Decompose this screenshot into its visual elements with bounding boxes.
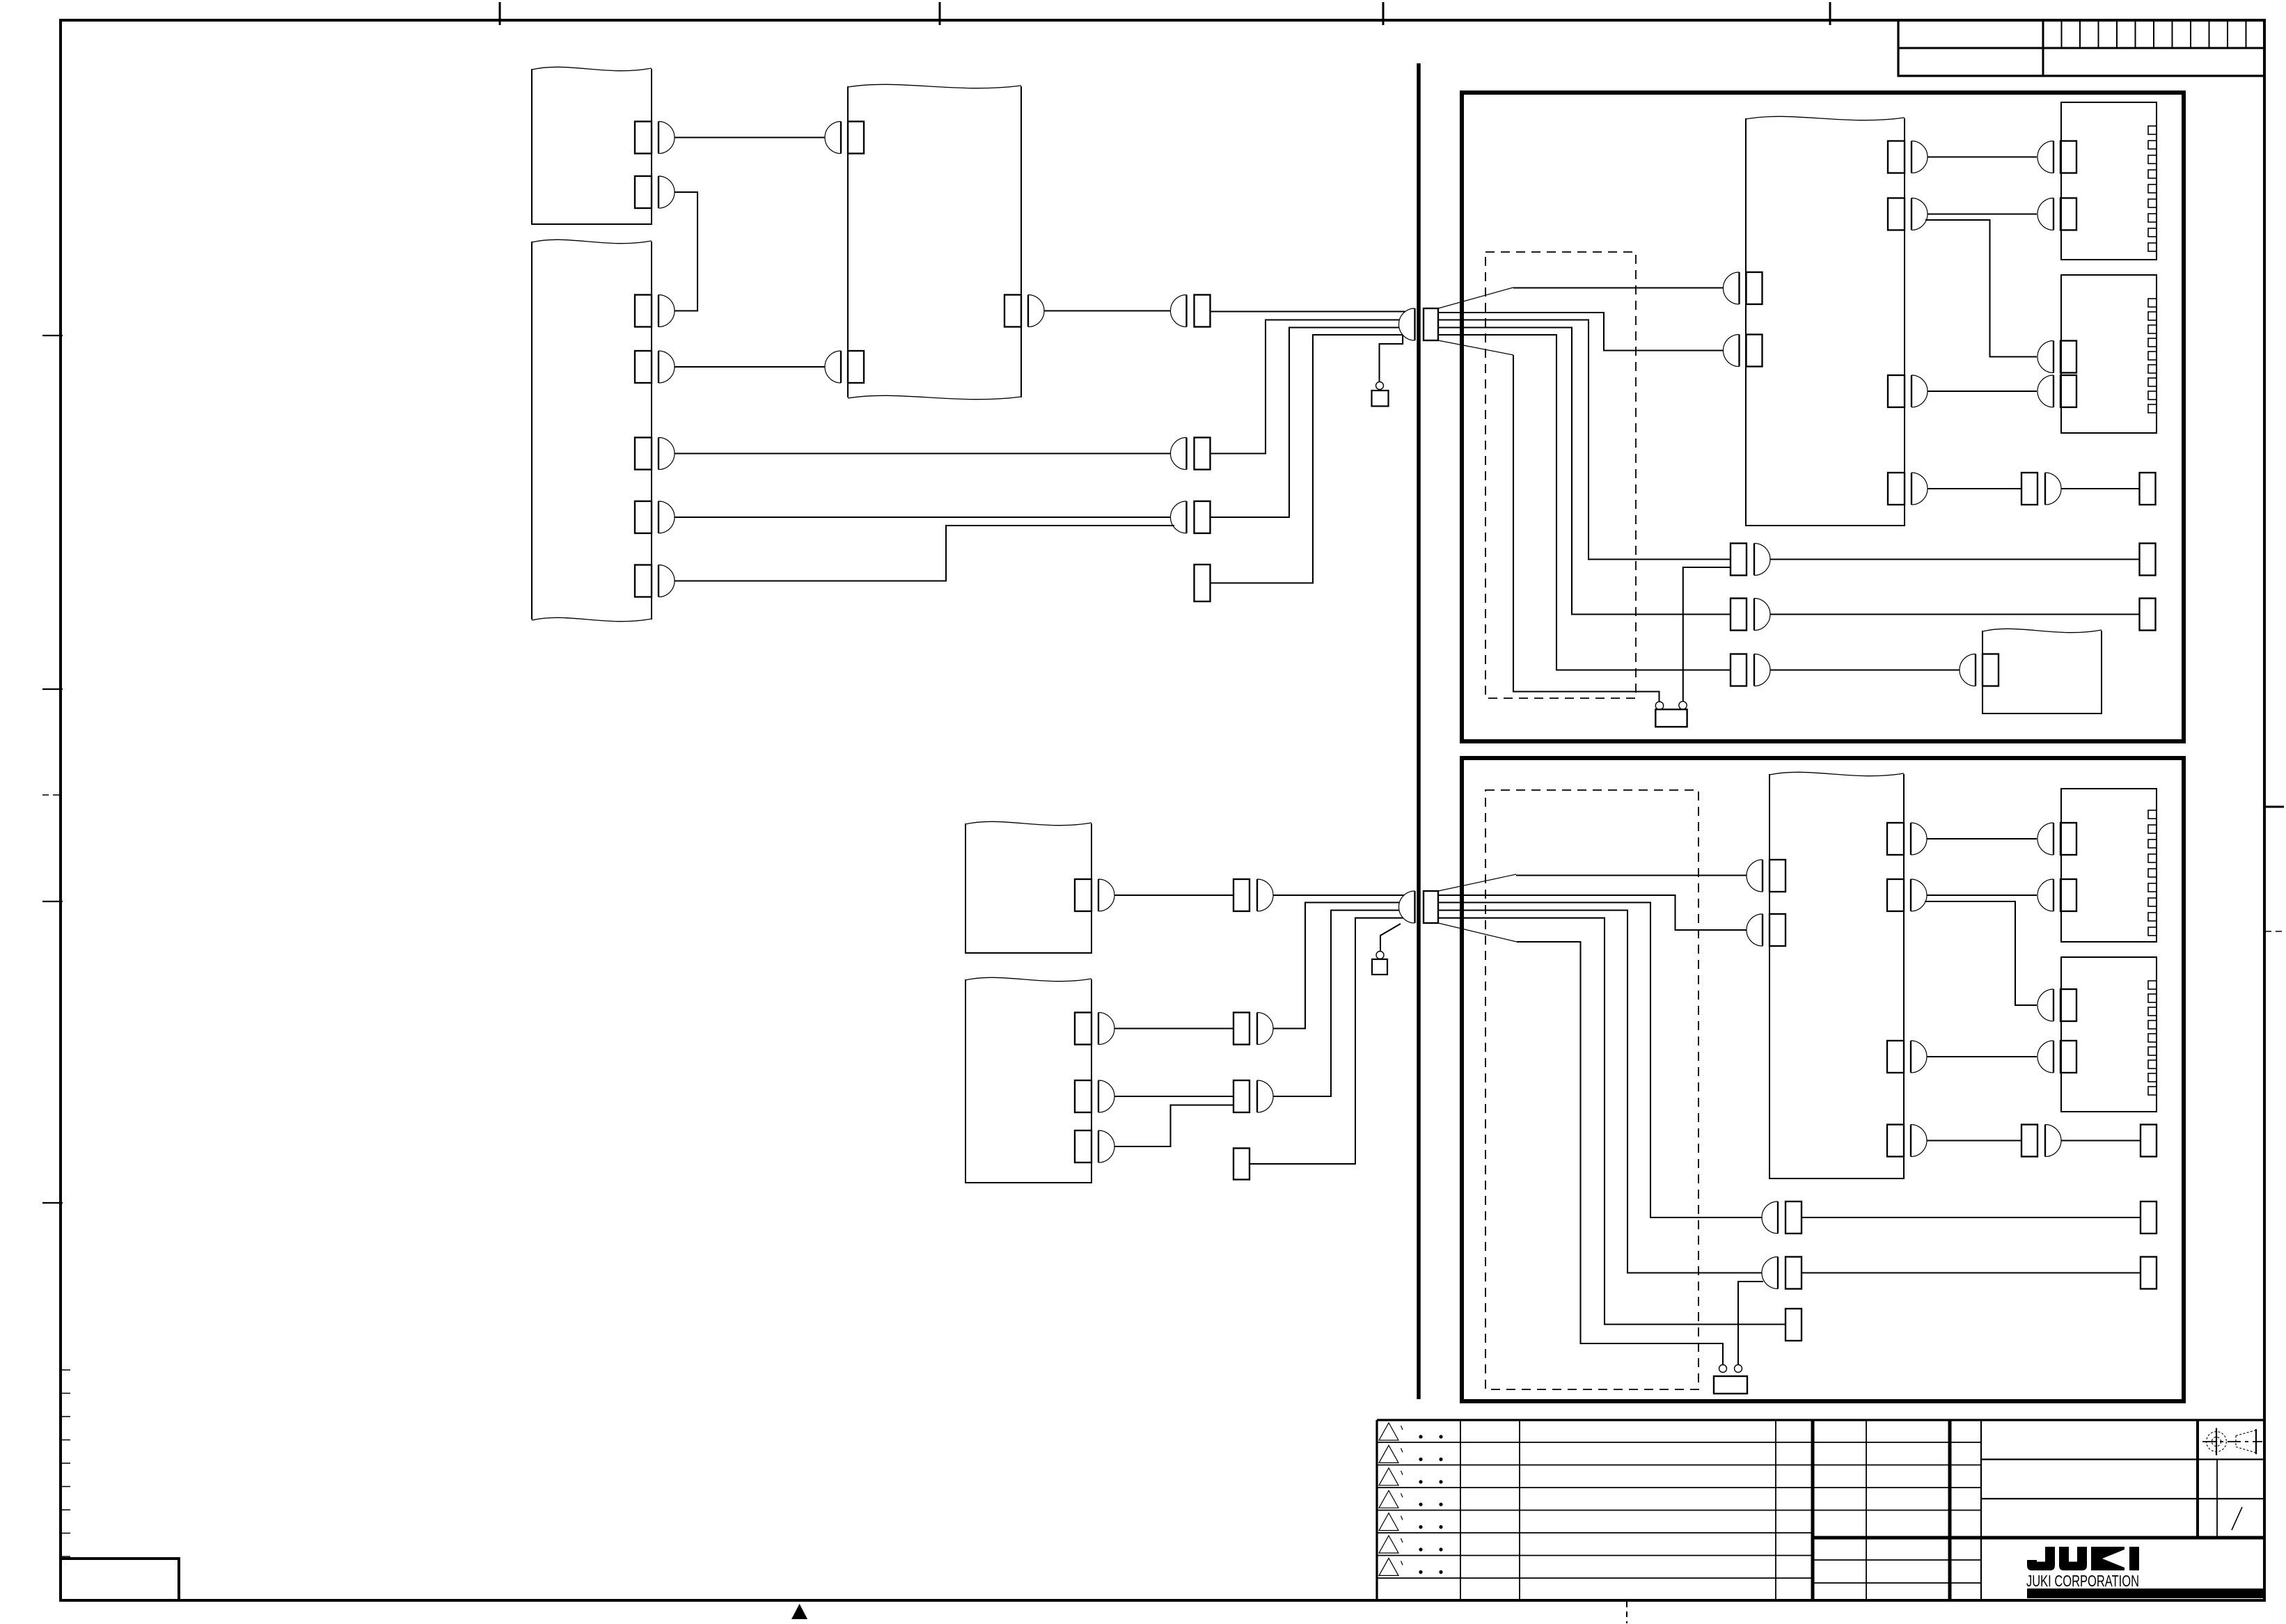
connector J2 (sub board 1) bbox=[2037, 198, 2076, 230]
left edge tick 4 bbox=[42, 1202, 63, 1204]
bottom left reference box bbox=[61, 1559, 179, 1600]
earth ring 2b bbox=[1735, 1365, 1742, 1373]
trunk connector socket hub 2 bbox=[1399, 891, 1415, 923]
wire pair6 to hub riser bbox=[1273, 903, 1399, 1029]
hub1 ground branch wire bbox=[1380, 335, 1403, 382]
trunk connector plug hub 2 bbox=[1424, 891, 1438, 923]
wire G1 to pair 5 bbox=[1114, 894, 1233, 896]
earth strap plate 2 bbox=[1714, 1376, 1747, 1394]
sub board 3 bbox=[2061, 789, 2157, 942]
left edge centre dash mark bbox=[42, 794, 62, 796]
wire B2 to C2 bbox=[675, 366, 825, 368]
block B (left, continued both ends) bbox=[531, 242, 533, 620]
wire P1 to terminal T2 bbox=[1770, 558, 2140, 560]
earth ring 1a bbox=[1655, 702, 1663, 709]
wire L6 to hub riser bbox=[1250, 918, 1403, 1164]
connector P1 pair bbox=[1731, 544, 1770, 576]
connector B2 (block B pin) bbox=[635, 351, 675, 383]
svg-text:JUKI CORPORATION: JUKI CORPORATION bbox=[2026, 1572, 2139, 1590]
hub1 ground ring bbox=[1376, 382, 1384, 390]
wire hub2-2 to P1b bbox=[1438, 903, 1762, 1218]
terminal plug L5 bbox=[1195, 565, 1211, 601]
left edge tick 2 bbox=[42, 688, 63, 690]
wire P2b to terminal T6 bbox=[1802, 1272, 2141, 1273]
inline connector pair 7 bbox=[1233, 1080, 1273, 1112]
hub1 ground lug bbox=[1372, 391, 1389, 407]
revision triangle marks bbox=[1379, 1423, 1443, 1575]
connector E2 (PCB1 left) bbox=[1724, 335, 1763, 367]
wire pair3 to hub bbox=[1211, 310, 1405, 312]
enclosure1 shield drain wire bbox=[1513, 355, 1660, 702]
block H (lower left, continued) bbox=[965, 979, 1091, 1183]
cable group dashed box 2 bbox=[1485, 790, 1698, 1389]
wire pair5 to hub 2 bbox=[1273, 894, 1404, 896]
hub1 cable outline lower bbox=[1438, 340, 1513, 355]
wire B5 joining pair 2 bbox=[675, 526, 1174, 581]
sub board 4 bbox=[2061, 957, 2157, 1112]
wire hub2-3 to P2b bbox=[1438, 910, 1762, 1273]
earth strap plate 1 bbox=[1655, 709, 1687, 727]
wire hub1-3 to P2 bbox=[1438, 328, 1731, 615]
sub board 1 bbox=[2061, 102, 2157, 260]
terminal plug T4 bbox=[2141, 1125, 2157, 1157]
connector B1 (block B pin) bbox=[635, 295, 675, 327]
hub2 cable outline upper bbox=[1438, 874, 1516, 891]
wire hub1-2 to P1 bbox=[1438, 320, 1731, 560]
sub board 2 bbox=[2061, 275, 2157, 433]
wire D2b to J6 bbox=[1927, 894, 2037, 896]
earth ring 1b bbox=[1679, 702, 1687, 709]
connector P2 pair bbox=[1731, 599, 1770, 631]
wire hub2-4 to terminal T7 bbox=[1438, 918, 1786, 1325]
hub1 cable outline upper bbox=[1438, 287, 1513, 308]
wire hub1-1 to E2 bbox=[1438, 313, 1724, 351]
connector B3 (block B pin) bbox=[635, 438, 675, 470]
wire hub1-4 to P3 bbox=[1438, 335, 1731, 670]
bottom fold mark dashed bbox=[1626, 1602, 1627, 1623]
connector C1 (block C pin) bbox=[825, 122, 864, 154]
hub2 ground ring bbox=[1376, 952, 1384, 959]
sub board 2 pin comb bbox=[2148, 299, 2157, 413]
connector J1 (sub board 1) bbox=[2037, 141, 2076, 173]
terminal plug T1 bbox=[2140, 473, 2156, 505]
JUKI logo bbox=[2027, 1547, 2139, 1570]
block A (upper left, continued) bbox=[532, 69, 652, 224]
connector D3b (PCB2 right) bbox=[1887, 1041, 1927, 1073]
wire C3 to inline pair 3 bbox=[1044, 310, 1171, 311]
terminal plug T6 bbox=[2141, 1257, 2157, 1289]
terminal plug T7 bbox=[1786, 1309, 1802, 1341]
connector J8 (sub board 4) bbox=[2037, 1041, 2076, 1073]
sub board 1 pin comb bbox=[2148, 126, 2157, 251]
main harness boundary line bbox=[1417, 63, 1421, 1399]
top right drawing number strip bbox=[1898, 20, 2264, 76]
left border scale ticks bbox=[62, 1370, 70, 1556]
unit enclosure box 1 bbox=[1462, 93, 2184, 741]
terminal plug T5 bbox=[2141, 1201, 2157, 1233]
wire P3 to K1 bbox=[1770, 669, 1960, 670]
hub2 ground branch wire bbox=[1380, 924, 1401, 952]
connector J6 (sub board 3) bbox=[2037, 879, 2076, 911]
wire D2 to J2 bbox=[1928, 213, 2037, 214]
left edge tick 1 bbox=[42, 335, 63, 336]
connector D3 (PCB1 right) bbox=[1888, 375, 1928, 407]
connector D2 (PCB1 right) bbox=[1888, 198, 1928, 230]
top edge fold tick 2 bbox=[939, 2, 941, 25]
inline connector pair 6 bbox=[1233, 1013, 1273, 1045]
wire B3 to inline pair 1 bbox=[675, 452, 1171, 454]
connector D1 (PCB1 right) bbox=[1888, 141, 1928, 173]
wire hub2 to E1b bbox=[1516, 874, 1747, 876]
connector A2 (block A pin) bbox=[635, 176, 675, 208]
wire D1 to J1 bbox=[1928, 156, 2037, 157]
connector G1 (block G pin) bbox=[1075, 879, 1114, 911]
sub board 3 pin comb bbox=[2148, 810, 2157, 936]
wire pair8 to terminal T4 bbox=[2061, 1140, 2141, 1141]
connector P3 pair bbox=[1731, 654, 1770, 686]
device block 1 (continued) bbox=[1982, 631, 2102, 714]
connector P2b pair bbox=[1762, 1257, 1802, 1289]
terminal plug L6 bbox=[1233, 1149, 1250, 1180]
inline connector pair 8 bbox=[2021, 1125, 2061, 1157]
trunk connector plug hub 1 bbox=[1424, 308, 1438, 340]
connector E2b (PCB2 left) bbox=[1747, 914, 1786, 946]
connector J5 (sub board 3) bbox=[2037, 823, 2076, 855]
connector H1 (block H pin) bbox=[1075, 1013, 1114, 1045]
connector D2b (PCB2 right) bbox=[1887, 879, 1927, 911]
wire pair7 to hub riser bbox=[1273, 910, 1399, 1096]
wire D2b branch to J7 bbox=[1925, 901, 2037, 1005]
trunk connector socket hub 1 bbox=[1399, 308, 1415, 340]
enclosure2 shield drain wire bbox=[1517, 942, 1723, 1365]
wire H2 to pair 7 bbox=[1114, 1096, 1233, 1097]
wire pair1 to hub riser bbox=[1211, 320, 1400, 454]
P2b drain stub wire bbox=[1738, 1282, 1763, 1365]
inline connector pair 5 bbox=[1233, 879, 1273, 911]
bottom border triangle mark bbox=[791, 1604, 807, 1619]
connector D1b (PCB2 right) bbox=[1887, 823, 1927, 855]
block C (centre, continued both ends) bbox=[847, 86, 849, 397]
wire hub1 to E1 bbox=[1513, 287, 1724, 288]
inline connector pair 2 bbox=[1171, 501, 1211, 533]
wire pair4 to terminal T1 bbox=[2061, 488, 2140, 489]
wire D3 to J4 bbox=[1928, 391, 2037, 392]
connector C3 (block C right pin) bbox=[1004, 295, 1044, 327]
title block grid bbox=[1377, 1420, 2264, 1600]
wire D4 to pair 4 bbox=[1928, 488, 2021, 489]
connector H2 (block H pin) bbox=[1075, 1080, 1114, 1112]
first angle projection symbol bbox=[2202, 1428, 2262, 1456]
connector A1 (block A pin) bbox=[635, 122, 675, 154]
connector B5 (block B pin) bbox=[635, 565, 675, 597]
connector J3 (sub board 2) bbox=[2037, 341, 2076, 373]
wire pair2 to hub riser bbox=[1211, 328, 1399, 518]
PCB block 2 (continued) bbox=[1769, 774, 1904, 1178]
P1 drain stub wire bbox=[1683, 567, 1731, 702]
hub2 cable outline lower bbox=[1438, 923, 1517, 942]
wire H3 joining pair 7 bbox=[1114, 1105, 1233, 1147]
top edge fold tick 3 bbox=[1382, 2, 1385, 25]
right edge tick bbox=[2264, 806, 2284, 808]
right edge centre dash mark bbox=[2265, 931, 2283, 932]
earth ring 2a bbox=[1719, 1365, 1727, 1373]
terminal plug T3 bbox=[2140, 599, 2156, 631]
connector B4 (block B pin) bbox=[635, 501, 675, 533]
connector E1 (PCB1 left) bbox=[1724, 272, 1763, 304]
scale slash mark bbox=[2232, 1507, 2242, 1530]
connector K1 (device block) bbox=[1960, 654, 1999, 686]
wire H1 to pair 6 bbox=[1114, 1027, 1233, 1029]
connector J7 (sub board 4) bbox=[2037, 989, 2076, 1021]
wire hub2-1 to E2b bbox=[1438, 895, 1747, 930]
connector E1b (PCB2 left) bbox=[1747, 860, 1786, 892]
terminal plug T2 bbox=[2140, 544, 2156, 576]
wire D4b to pair 8 bbox=[1927, 1140, 2021, 1141]
connector H3 (block H pin) bbox=[1075, 1130, 1114, 1162]
top edge fold tick 1 bbox=[499, 2, 501, 25]
inline connector pair 3 bbox=[1171, 295, 1211, 327]
connector J4 (sub board 2) bbox=[2037, 375, 2076, 407]
unit enclosure box 2 bbox=[1462, 758, 2184, 1401]
title block bottom bar bbox=[2027, 1588, 2264, 1598]
wire P2 to terminal T3 bbox=[1770, 613, 2140, 615]
PCB block 1 (continued) bbox=[1746, 118, 1905, 526]
left edge tick 3 bbox=[42, 901, 63, 902]
block G (lower left, continued) bbox=[965, 823, 1091, 953]
wire A2 to B1 bbox=[675, 192, 697, 311]
inline connector pair 1 bbox=[1171, 438, 1211, 470]
wire B4 to inline pair 2 bbox=[675, 517, 1171, 518]
wire P1b to terminal T5 bbox=[1802, 1217, 2141, 1218]
inline connector pair 4 bbox=[2021, 473, 2061, 505]
connector D4 (PCB1 right) bbox=[1888, 473, 1928, 505]
connector P1b pair bbox=[1762, 1201, 1802, 1233]
wire A1 to C1 bbox=[675, 136, 825, 138]
connector C2 (block C pin) bbox=[825, 351, 864, 383]
sub board 4 pin comb bbox=[2148, 981, 2157, 1095]
top edge fold tick 4 bbox=[1829, 2, 1831, 25]
hub2 ground lug bbox=[1372, 959, 1387, 975]
wire D3b to J8 bbox=[1927, 1056, 2037, 1057]
wire D1b to J5 bbox=[1927, 838, 2037, 839]
wire L5 to hub riser bbox=[1211, 335, 1403, 583]
wire D2 branch to J3 bbox=[1925, 220, 2037, 357]
connector D4b (PCB2 right) bbox=[1887, 1125, 1927, 1157]
cable group dashed box 1 bbox=[1485, 252, 1636, 698]
